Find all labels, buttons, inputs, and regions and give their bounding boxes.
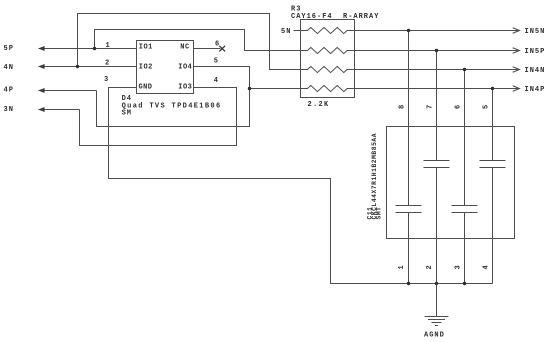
node IN5N junction bbox=[407, 29, 410, 32]
svg-text:IN4P: IN4P bbox=[525, 86, 546, 94]
wire net 4N to R3 bbox=[78, 14, 301, 70]
wire IN4P bbox=[355, 88, 520, 90]
node rail junction 3 bbox=[463, 282, 466, 285]
svg-text:5: 5 bbox=[483, 104, 491, 109]
svg-text:IO3: IO3 bbox=[178, 84, 192, 92]
svg-text:Quad TVS TPD4E1B06: Quad TVS TPD4E1B06 bbox=[122, 103, 222, 111]
svg-text:1: 1 bbox=[106, 42, 111, 50]
wire 4P branch to R3 bbox=[250, 88, 301, 90]
svg-text:4N: 4N bbox=[4, 64, 14, 72]
node 4P junction bbox=[248, 87, 251, 90]
svg-text:SMT: SMT bbox=[375, 207, 382, 220]
svg-text:4: 4 bbox=[214, 77, 219, 85]
wire net 4P riser bbox=[97, 67, 250, 127]
svg-text:NC: NC bbox=[180, 44, 189, 52]
svg-text:IN4N: IN4N bbox=[525, 67, 546, 75]
port IN4N arrowhead bbox=[513, 67, 520, 72]
capacitor C11c bbox=[452, 70, 478, 284]
svg-text:AGND: AGND bbox=[424, 332, 445, 340]
svg-text:3: 3 bbox=[455, 265, 463, 270]
node IN4N junction bbox=[463, 68, 466, 71]
resistor R3b bbox=[301, 47, 355, 53]
node IN4P junction bbox=[491, 87, 494, 90]
wire IN5P bbox=[355, 50, 520, 52]
port IN5N arrowhead bbox=[513, 28, 520, 33]
svg-text:6: 6 bbox=[455, 104, 463, 109]
node rail junction 2 bbox=[435, 282, 438, 285]
ground AGND symbol bbox=[425, 284, 449, 326]
resistor array R3 box bbox=[301, 20, 355, 98]
capacitor C11d bbox=[480, 89, 506, 284]
wire IN5N bbox=[355, 30, 520, 32]
svg-text:8: 8 bbox=[399, 104, 407, 109]
port 4P arrow bbox=[38, 88, 96, 93]
svg-text:1: 1 bbox=[398, 265, 406, 270]
svg-text:5P: 5P bbox=[4, 45, 14, 53]
wire net 5P to R3 bbox=[95, 30, 301, 51]
op IC D4 box bbox=[137, 41, 194, 94]
svg-text:IN5N: IN5N bbox=[525, 28, 546, 36]
wire net 3N to IO3 bbox=[80, 88, 237, 146]
port IN5P arrowhead bbox=[513, 48, 520, 53]
svg-text:4P: 4P bbox=[4, 86, 14, 94]
svg-text:7: 7 bbox=[427, 104, 435, 109]
svg-text:2: 2 bbox=[105, 59, 110, 67]
node 4N junction bbox=[76, 65, 79, 68]
svg-text:3N: 3N bbox=[4, 106, 14, 114]
svg-text:IO1: IO1 bbox=[139, 44, 153, 52]
resistor R3d bbox=[301, 85, 355, 91]
capacitor C11b bbox=[424, 51, 450, 284]
svg-text:IN5P: IN5P bbox=[525, 48, 546, 56]
svg-text:2.2K: 2.2K bbox=[308, 101, 330, 109]
capacitor array C11 box bbox=[387, 127, 515, 239]
svg-text:5: 5 bbox=[214, 58, 219, 66]
svg-text:SM: SM bbox=[122, 110, 132, 118]
svg-text:CAY16-F4 R-ARRAY: CAY16-F4 R-ARRAY bbox=[291, 13, 379, 21]
capacitor C11a bbox=[396, 31, 422, 284]
no-connect X pin6 bbox=[194, 46, 226, 52]
svg-text:GND: GND bbox=[139, 84, 153, 92]
svg-text:5N: 5N bbox=[281, 28, 291, 36]
node 5P junction bbox=[93, 47, 96, 50]
resistor R3c bbox=[301, 66, 355, 72]
wire IN4N bbox=[355, 69, 520, 71]
port 5P arrow bbox=[38, 46, 136, 51]
node rail junction 1 bbox=[407, 282, 410, 285]
svg-text:IO4: IO4 bbox=[178, 64, 192, 72]
port 3N arrow bbox=[38, 107, 79, 112]
svg-text:IO2: IO2 bbox=[139, 64, 153, 72]
wire 5N stub bbox=[294, 30, 308, 32]
svg-text:2: 2 bbox=[426, 265, 434, 270]
resistor R3a bbox=[301, 27, 355, 33]
wire GND net pin3 to rail bbox=[109, 88, 493, 284]
port IN4P arrowhead bbox=[513, 86, 520, 91]
svg-text:4: 4 bbox=[483, 265, 491, 270]
port 4N arrow bbox=[38, 64, 136, 69]
svg-text:3: 3 bbox=[104, 76, 109, 84]
node IN5P junction bbox=[435, 49, 438, 52]
svg-text:6: 6 bbox=[215, 41, 220, 49]
